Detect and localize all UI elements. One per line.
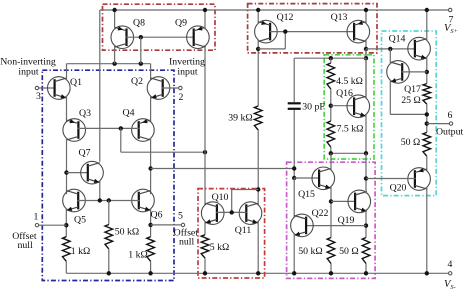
wire Q13 collector down bbox=[365, 40, 367, 59]
label 5 kOhm bbox=[210, 242, 230, 253]
wire node down to 4.5k wire bbox=[365, 49, 367, 99]
label Q9 bbox=[175, 18, 187, 29]
label Q20 bbox=[390, 183, 407, 194]
node Q17 base junction bbox=[425, 70, 429, 74]
wire 39k bottom to Q11 collector bbox=[257, 130, 259, 205]
label 1 kOhm left bbox=[71, 246, 91, 257]
node Q10/Q11 base junction bbox=[230, 210, 234, 214]
node pin4 terminal bbox=[449, 272, 452, 275]
resistor R1 1 kOhm bbox=[63, 237, 71, 262]
svg-text:1 kΩ: 1 kΩ bbox=[128, 250, 148, 261]
wire Q15 emitter down bbox=[330, 186, 332, 237]
wire Q11 diode tie horizontal bbox=[232, 189, 259, 191]
wire Q19 emitter down bbox=[365, 209, 367, 237]
wire Q15 base bbox=[294, 177, 320, 179]
node VBE multiplier top junction bbox=[364, 56, 368, 60]
svg-text:3: 3 bbox=[36, 91, 41, 102]
wire 1k left bottom lead bbox=[65, 261, 67, 273]
svg-text:6: 6 bbox=[448, 110, 453, 121]
label Inverting input bbox=[169, 57, 205, 78]
node Q19 base junction bbox=[329, 199, 333, 203]
svg-text:Q2: Q2 bbox=[131, 76, 143, 87]
wire Q15 collector up bbox=[330, 153, 332, 170]
node Q11 emitter rail junction bbox=[256, 271, 260, 275]
svg-text:7.5 kΩ: 7.5 kΩ bbox=[337, 124, 364, 135]
wire Q13 collector to Q14 base bbox=[366, 48, 415, 50]
node pin3 terminal bbox=[35, 86, 38, 89]
node 4.5k top junction bbox=[329, 56, 333, 60]
wire Q10 base to Q11 base bbox=[216, 211, 247, 213]
resistor R8 50 kOhm bbox=[327, 238, 335, 264]
label Q17 bbox=[404, 84, 421, 95]
transistor Q17 bbox=[387, 61, 410, 84]
node Q8 emitter rail junction bbox=[112, 8, 116, 12]
wire Q20 collector down bbox=[426, 187, 428, 273]
wire Q22 emitter down bbox=[293, 233, 295, 273]
group box: current mirror Q8 Q9 (red) bbox=[103, 4, 216, 50]
wire Q1 emitter to Q3 emitter bbox=[66, 96, 68, 122]
label Q19 bbox=[338, 215, 355, 226]
wire Q2 collector up bbox=[150, 64, 152, 81]
wire Q19 base bbox=[331, 200, 356, 202]
wire Q20 base bbox=[366, 178, 416, 180]
node pin5 terminal bbox=[181, 223, 184, 226]
wire Q12 collector down bbox=[257, 40, 259, 107]
svg-text:Q22: Q22 bbox=[312, 208, 329, 219]
label Q15 bbox=[298, 189, 315, 200]
transistor Q12 bbox=[255, 20, 278, 43]
node cap to diff-output junction bbox=[292, 166, 296, 170]
wire Q4 collector down bbox=[150, 138, 152, 194]
transistor Q11 bbox=[239, 202, 262, 225]
wire Q3 base to Q4 base bbox=[78, 127, 140, 129]
label Q1 bbox=[70, 77, 82, 88]
resistor R6 4.5 kOhm bbox=[327, 63, 335, 89]
wire 1k right bottom lead bbox=[150, 261, 152, 273]
node 5k rail junction bbox=[203, 271, 207, 275]
wire 30pF bottom lead bbox=[293, 110, 295, 178]
svg-text:1 kΩ: 1 kΩ bbox=[71, 246, 91, 257]
node VBE bottom right junction bbox=[364, 151, 368, 155]
capacitor C1 30 pF bbox=[288, 103, 301, 109]
label Q2 bbox=[131, 76, 143, 87]
node output node junction bbox=[425, 112, 429, 116]
label Q4 bbox=[123, 108, 135, 119]
wire Q12 diode tie vertical bbox=[284, 32, 286, 49]
svg-text:null: null bbox=[17, 240, 33, 251]
wire Q12 diode tie horizontal bbox=[258, 48, 285, 50]
wire Q16 emitter down bbox=[365, 114, 367, 153]
transistor Q7 bbox=[81, 161, 104, 184]
node pin5 junction bbox=[148, 223, 152, 227]
svg-text:Q8: Q8 bbox=[133, 18, 145, 29]
wire Q22 base to Q19 emitter bbox=[305, 225, 366, 227]
svg-text:4.5 kΩ: 4.5 kΩ bbox=[336, 76, 363, 87]
svg-text:30 pF: 30 pF bbox=[302, 102, 325, 113]
svg-text:1: 1 bbox=[34, 211, 39, 222]
wire Q16 collector up bbox=[365, 58, 367, 98]
wire Q17 collector up bbox=[389, 49, 391, 64]
transistor Q8 bbox=[111, 26, 134, 49]
wire Q10 emitter down bbox=[204, 221, 206, 235]
node Q22 emitter rail junction bbox=[292, 271, 296, 275]
wire Q17 emitter down bbox=[389, 80, 391, 115]
node Q12 emitter rail junction bbox=[256, 8, 260, 12]
resistor R5 5 kOhm bbox=[201, 235, 209, 258]
node Q13 emitter rail junction bbox=[364, 8, 368, 12]
wire pin6 lead bbox=[427, 123, 449, 125]
node Q7 collector crossing bbox=[99, 63, 101, 65]
svg-text:Q13: Q13 bbox=[331, 12, 348, 23]
svg-text:2: 2 bbox=[179, 92, 184, 103]
wire Q17 emitter horizontal bbox=[390, 113, 427, 115]
svg-text:Q16: Q16 bbox=[336, 88, 353, 99]
wire Q7 base bbox=[67, 172, 89, 174]
node Q13 collector junction bbox=[364, 47, 368, 51]
wire Q17 base to 25ohm top bbox=[402, 71, 427, 73]
node Q17 collector junction bbox=[388, 47, 392, 51]
label 50 Ohm gain bbox=[339, 246, 359, 257]
wire Q8 collector down bbox=[114, 45, 116, 64]
node Q8 collector junction bbox=[112, 62, 116, 66]
node Q8 base junction bbox=[139, 35, 143, 39]
wire Q11 emitter down bbox=[257, 221, 259, 273]
wire VBE top horizontal bbox=[294, 57, 366, 59]
svg-text:Q14: Q14 bbox=[389, 34, 406, 45]
node Q12 base junction bbox=[283, 29, 287, 33]
label Q7 bbox=[79, 148, 91, 159]
transistor Q16 bbox=[347, 95, 370, 118]
node Q22 base junction bbox=[364, 223, 368, 227]
node Q15 base junction bbox=[292, 176, 296, 180]
wire Q14 emitter down bbox=[426, 57, 428, 84]
transistor Q5 bbox=[63, 189, 86, 212]
node VBE bottom left junction bbox=[329, 151, 333, 155]
wire 5k bottom lead bbox=[204, 258, 206, 273]
wire Q7 collector to V+ rail bbox=[99, 10, 101, 162]
transistor Q22 bbox=[291, 214, 314, 237]
svg-text:50 kΩ: 50 kΩ bbox=[298, 246, 322, 257]
wire Q3 collector down bbox=[66, 138, 68, 194]
wire Q22 collector up bbox=[293, 178, 295, 218]
svg-text:Q20: Q20 bbox=[390, 183, 407, 194]
svg-text:null: null bbox=[179, 237, 195, 248]
transistor Q19 bbox=[348, 190, 371, 213]
label Q13 bbox=[331, 12, 348, 23]
node Q16 base junction bbox=[329, 104, 333, 108]
resistor R10 25 Ohm bbox=[423, 84, 431, 105]
group box: current mirror Q10 Q11 (red) bbox=[198, 189, 265, 278]
node Q20 base junction bbox=[364, 176, 368, 180]
wire Q9 collector down bbox=[204, 45, 206, 152]
node Q7 emitter junction bbox=[98, 198, 102, 202]
node pin2 terminal bbox=[179, 86, 182, 89]
node pin1 terminal bbox=[35, 224, 38, 227]
wire Q19 collector up bbox=[365, 153, 367, 193]
node Q9 emitter rail junction bbox=[203, 8, 207, 12]
wire 50ohm gain bottom lead bbox=[365, 264, 367, 274]
wire Q9 emitter up bbox=[204, 10, 206, 29]
label Q5 bbox=[74, 215, 86, 226]
label pin 4 bbox=[448, 259, 453, 270]
wire Q6 emitter down bbox=[150, 208, 152, 236]
svg-text:4: 4 bbox=[448, 259, 453, 270]
svg-text:39 kΩ: 39 kΩ bbox=[228, 113, 252, 124]
wire pin1 lead bbox=[39, 224, 66, 226]
label Q10 bbox=[212, 192, 229, 203]
svg-text:Q17: Q17 bbox=[404, 84, 421, 95]
wire V- bottom rail bbox=[66, 272, 449, 274]
transistor Q1 bbox=[48, 77, 71, 100]
wire Q7 emitter down bbox=[99, 181, 101, 201]
resistor R9 50 Ohm bbox=[362, 238, 370, 264]
svg-text:input: input bbox=[177, 67, 197, 78]
svg-text:Q11: Q11 bbox=[235, 225, 252, 236]
svg-text:Q3: Q3 bbox=[79, 108, 91, 119]
label pin 3 bbox=[36, 91, 41, 102]
svg-text:25 Ω: 25 Ω bbox=[401, 95, 421, 106]
node 50k rail junction bbox=[107, 271, 111, 275]
wire V+ top rail bbox=[100, 9, 449, 11]
label Q16 bbox=[336, 88, 353, 99]
label 7.5 kOhm bbox=[337, 124, 364, 135]
label Q6 bbox=[151, 210, 163, 221]
label Q3 bbox=[79, 108, 91, 119]
wire Q8 emitter up bbox=[114, 10, 116, 29]
label Vs- bbox=[444, 279, 456, 291]
label Q14 bbox=[389, 34, 406, 45]
transistor Q4 bbox=[132, 119, 155, 142]
label pin 1 bbox=[34, 211, 39, 222]
transistor Q10 bbox=[201, 202, 224, 225]
node Q9/Q10 collector junction bbox=[203, 150, 207, 154]
wire Q2 emitter to Q4 emitter bbox=[150, 96, 152, 122]
node 50k gain rail junction bbox=[329, 271, 333, 275]
wire Q2 base to pin2 bbox=[162, 87, 179, 89]
wire base node down bbox=[120, 128, 122, 152]
svg-text:50 Ω: 50 Ω bbox=[401, 137, 421, 148]
wire 4.5k top lead bbox=[330, 58, 332, 63]
resistor R2 50 kOhm bbox=[105, 225, 113, 249]
wire VBE bottom horizontal bbox=[331, 152, 366, 154]
label Non-inverting input bbox=[0, 57, 56, 78]
wire Q12 base to Q13 base bbox=[269, 31, 354, 33]
wire Q13 emitter up bbox=[365, 10, 367, 24]
label 30 pF bbox=[302, 102, 325, 113]
node Q12 collector tie junction bbox=[256, 47, 260, 51]
wire pin5 lead bbox=[151, 224, 182, 226]
label 39 kOhm bbox=[228, 113, 252, 124]
node Q20 rail junction bbox=[425, 271, 429, 275]
wire 4.5k bottom to 7.5k bbox=[330, 89, 332, 121]
svg-text:input: input bbox=[18, 67, 38, 78]
node Q11 collector tie junction bbox=[256, 187, 260, 191]
wire Q10 collector up bbox=[204, 152, 206, 205]
resistor R4 39 kOhm bbox=[254, 106, 262, 130]
label 25 Ohm bbox=[401, 95, 421, 106]
svg-text:Q9: Q9 bbox=[175, 18, 187, 29]
resistor R7 7.5 kOhm bbox=[327, 121, 335, 147]
svg-text:Q1: Q1 bbox=[70, 77, 82, 88]
transistor Q20 bbox=[408, 168, 431, 191]
resistor R3 1 kOhm bbox=[147, 237, 155, 262]
label Offset null left bbox=[12, 231, 37, 251]
node pin6 terminal bbox=[449, 122, 452, 125]
svg-text:5 kΩ: 5 kΩ bbox=[210, 242, 230, 253]
transistor Q13 bbox=[347, 20, 370, 43]
transistor Q9 bbox=[187, 26, 210, 49]
group box: current mirror Q12 Q13 (red) bbox=[248, 4, 377, 53]
transistor Q15 bbox=[312, 167, 335, 190]
transistor Q6 bbox=[132, 189, 155, 212]
wire Q8 base to Q9 base bbox=[126, 36, 195, 38]
wire 50k bottom lead bbox=[108, 249, 110, 273]
svg-text:Q10: Q10 bbox=[212, 192, 229, 203]
svg-text:50 Ω: 50 Ω bbox=[339, 246, 359, 257]
node Q8 base tie junction bbox=[139, 62, 143, 66]
label pin 5 bbox=[178, 211, 183, 222]
label 4.5 kOhm bbox=[336, 76, 363, 87]
resistor R11 50 Ohm bbox=[423, 132, 431, 156]
wire Q1/Q2 collector bus bbox=[67, 63, 151, 65]
transistor Q2 bbox=[147, 77, 170, 100]
wire Q16 base bbox=[331, 105, 355, 107]
wire 30pF top lead bbox=[293, 58, 295, 102]
node 1k right rail junction bbox=[148, 271, 152, 275]
node 50ohm gain rail junction bbox=[364, 271, 368, 275]
wire Q14 collector up bbox=[426, 10, 428, 41]
svg-text:Q7: Q7 bbox=[79, 148, 91, 159]
svg-text:Q6: Q6 bbox=[151, 210, 163, 221]
svg-text:Q5: Q5 bbox=[74, 215, 86, 226]
wire base node to mirror node bbox=[121, 151, 205, 153]
svg-text:50 kΩ: 50 kΩ bbox=[115, 227, 139, 238]
node Q14 collector rail junction bbox=[425, 8, 429, 12]
node pin1 junction bbox=[64, 223, 68, 227]
wire pin3 to Q1 base bbox=[39, 87, 55, 89]
svg-text:Q19: Q19 bbox=[338, 215, 355, 226]
label 50 kOhm diff bbox=[115, 227, 139, 238]
node pin6 junction bbox=[425, 121, 429, 125]
transistor Q14 bbox=[408, 37, 431, 60]
wire diff output to gain stage bbox=[151, 168, 295, 170]
group box: voltage level shifter Q16 (green) bbox=[324, 55, 374, 159]
wire Q5 base to Q6 base bbox=[78, 200, 140, 202]
label Q22 bbox=[312, 208, 329, 219]
wire Q8 base tie down bbox=[140, 37, 142, 64]
node diff output junction bbox=[148, 166, 152, 170]
group box: differential amplifier (blue) bbox=[42, 70, 174, 280]
label Output bbox=[436, 126, 463, 137]
wire Q5 emitter down bbox=[65, 208, 67, 236]
label pin 7 bbox=[449, 14, 454, 25]
label 50 kOhm gain bbox=[298, 246, 322, 257]
wire 50k top lead bbox=[108, 201, 110, 225]
svg-text:Q12: Q12 bbox=[277, 12, 294, 23]
label pin 6 bbox=[448, 110, 453, 121]
group box: output stage (cyan) bbox=[382, 31, 437, 196]
wire Q11 diode tie vertical bbox=[231, 190, 233, 213]
node Q3/Q4 base junction bbox=[119, 126, 123, 130]
svg-text:5: 5 bbox=[178, 211, 183, 222]
node 50k top junction bbox=[107, 198, 111, 202]
wire 50ohm to Q20 emitter bbox=[426, 156, 428, 171]
label Q8 bbox=[133, 18, 145, 29]
wire 7.5k bottom lead bbox=[330, 147, 332, 153]
wire Q12 emitter up bbox=[257, 10, 259, 24]
node pin7 terminal bbox=[449, 8, 452, 11]
label pin 2 bbox=[179, 92, 184, 103]
wire 50k gain bottom lead bbox=[330, 264, 332, 274]
svg-text:Q15: Q15 bbox=[298, 189, 315, 200]
svg-text:Output: Output bbox=[436, 126, 463, 137]
transistor Q3 bbox=[63, 119, 86, 142]
wire 25ohm bottom lead bbox=[426, 104, 428, 132]
label Q11 bbox=[235, 225, 252, 236]
label 50 Ohm out bbox=[401, 137, 421, 148]
node Q7 base junction bbox=[64, 170, 68, 174]
label 1 kOhm right bbox=[128, 250, 148, 261]
label Vs+ bbox=[444, 23, 458, 35]
svg-text:Q4: Q4 bbox=[123, 108, 135, 119]
group box: class A gain stage (magenta) bbox=[287, 162, 376, 278]
label Q12 bbox=[277, 12, 294, 23]
label Offset null mid bbox=[174, 227, 199, 247]
wire Q1 collector up bbox=[66, 64, 68, 81]
